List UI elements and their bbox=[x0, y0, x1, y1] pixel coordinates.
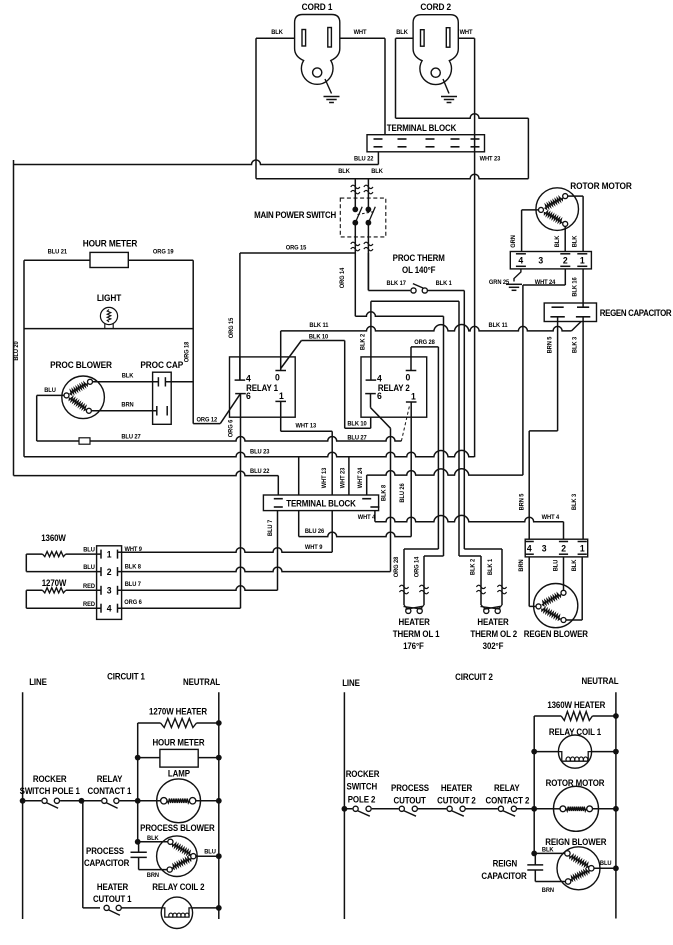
relay 1 pin 1 bbox=[275, 391, 286, 402]
proc therm overload switch PROC THERM OL 140F bbox=[368, 253, 464, 293]
svg-text:REIGN BLOWER: REIGN BLOWER bbox=[545, 837, 606, 848]
svg-text:ORG 28: ORG 28 bbox=[393, 556, 400, 577]
svg-text:RELAY: RELAY bbox=[494, 783, 520, 794]
svg-text:ORG 19: ORG 19 bbox=[153, 248, 174, 255]
svg-text:WHT 13: WHT 13 bbox=[296, 422, 317, 429]
svg-text:LIGHT: LIGHT bbox=[97, 293, 122, 304]
power cord plug CORD 1 bbox=[295, 15, 340, 94]
wire BLU 23 drop into terminal block bbox=[298, 457, 300, 495]
wire BLU 22 lower to terminal block bbox=[14, 471, 279, 495]
svg-text:RELAY COIL 2: RELAY COIL 2 bbox=[152, 882, 205, 893]
relay 1 pin 4 bbox=[235, 357, 252, 384]
svg-text:CONTACT 2: CONTACT 2 bbox=[486, 795, 530, 806]
wire GRN rotor to connector pin 4 bbox=[522, 210, 539, 252]
wire BLU 27 dashed link to relay 2 pin 1 bbox=[401, 405, 409, 442]
svg-text:CAPACITOR: CAPACITOR bbox=[481, 871, 526, 882]
wire BLU 26 from terminal block to relay 2 pin 1 bbox=[299, 511, 412, 537]
rotor motor connector block pins 4 3 2 1 bbox=[510, 252, 591, 269]
svg-text:1360W: 1360W bbox=[41, 533, 66, 544]
svg-text:4: 4 bbox=[527, 543, 533, 554]
svg-text:ORG 14: ORG 14 bbox=[413, 556, 420, 577]
hour meter bbox=[24, 252, 193, 267]
label ROCKER SWITCH POLE 1 bbox=[20, 774, 81, 797]
svg-text:BLK 2: BLK 2 bbox=[469, 558, 476, 575]
svg-text:LAMP: LAMP bbox=[168, 768, 190, 779]
svg-text:BLK: BLK bbox=[396, 29, 408, 36]
svg-text:BLK 11: BLK 11 bbox=[309, 322, 329, 329]
svg-text:WHT 23: WHT 23 bbox=[339, 467, 346, 488]
wire WHT 23 drop into terminal block bbox=[348, 457, 350, 495]
relay contact 2 switch bbox=[498, 806, 554, 816]
svg-text:BLK: BLK bbox=[147, 835, 159, 842]
wire BLK regen connector pin 1 to blower bbox=[566, 557, 582, 620]
neutral rail circuit 1 bbox=[218, 692, 220, 919]
svg-text:4: 4 bbox=[518, 255, 524, 266]
rocker switch pole 1 bbox=[20, 798, 85, 808]
svg-text:2: 2 bbox=[561, 543, 566, 554]
svg-text:4: 4 bbox=[246, 373, 252, 384]
svg-text:1360W HEATER: 1360W HEATER bbox=[547, 700, 605, 711]
heater 1360W bbox=[26, 533, 101, 572]
svg-text:SWITCH: SWITCH bbox=[347, 781, 378, 792]
svg-text:HOUR METER: HOUR METER bbox=[152, 737, 204, 748]
wire BRN 5 from regen capacitor to regen connector pin 4 bbox=[529, 322, 557, 540]
svg-text:BLK 11: BLK 11 bbox=[489, 322, 509, 329]
svg-text:BLU: BLU bbox=[204, 848, 216, 855]
relay coil 2 bbox=[161, 897, 222, 928]
regen capacitor bbox=[544, 303, 596, 322]
svg-text:BLK 3: BLK 3 bbox=[571, 493, 578, 510]
svg-text:BRN 5: BRN 5 bbox=[518, 493, 525, 510]
svg-text:PROCESS: PROCESS bbox=[391, 783, 429, 794]
svg-text:3: 3 bbox=[107, 585, 112, 596]
svg-text:WHT 4: WHT 4 bbox=[542, 514, 560, 521]
wire BLU 7 from terminal block to heater connector pin 3 bbox=[277, 511, 279, 591]
svg-text:BLK 8: BLK 8 bbox=[125, 563, 142, 570]
svg-text:BLU 21: BLU 21 bbox=[48, 248, 68, 255]
svg-text:BLK: BLK bbox=[271, 29, 283, 36]
svg-text:BLK 1: BLK 1 bbox=[436, 280, 453, 287]
svg-text:1: 1 bbox=[580, 255, 585, 266]
svg-text:BLK: BLK bbox=[371, 168, 383, 175]
wire BLU regen connector pin 2 to blower bbox=[563, 557, 565, 590]
regen blower connector block pins 4 3 2 1 bbox=[525, 539, 588, 557]
relay 2 pin 0 and wire ORG 28 bbox=[406, 347, 439, 383]
svg-text:6: 6 bbox=[377, 390, 382, 401]
svg-text:6: 6 bbox=[246, 390, 251, 401]
wire ORG 18 / ORG 19 vertical bbox=[193, 260, 220, 423]
svg-text:WHT 13: WHT 13 bbox=[321, 467, 328, 488]
wire ORG 6 relay 1 pin 6 down to heater connector pin 4 bbox=[118, 394, 241, 609]
wire ORG 28 to heater therm 1 bbox=[404, 347, 438, 605]
svg-text:BLK: BLK bbox=[554, 235, 561, 247]
svg-text:NEUTRAL: NEUTRAL bbox=[183, 677, 220, 688]
svg-text:BLK 10: BLK 10 bbox=[309, 333, 329, 340]
svg-text:BLK: BLK bbox=[338, 168, 350, 175]
svg-text:2: 2 bbox=[107, 567, 112, 578]
proc capacitor PROC CAP bbox=[153, 372, 194, 424]
svg-text:CUTOUT 1: CUTOUT 1 bbox=[93, 894, 132, 905]
heater 1270W bbox=[26, 578, 101, 609]
svg-text:ROCKER: ROCKER bbox=[346, 769, 380, 780]
svg-text:ORG 15: ORG 15 bbox=[228, 317, 235, 338]
svg-text:TERMINAL BLOCK: TERMINAL BLOCK bbox=[387, 123, 457, 134]
wire WHT 9 from terminal block to heater connector pin 1 bbox=[122, 511, 333, 553]
svg-text:WHT 24: WHT 24 bbox=[535, 279, 556, 286]
svg-text:BRN: BRN bbox=[147, 872, 159, 879]
svg-text:BLU 7: BLU 7 bbox=[267, 519, 274, 536]
svg-text:RELAY COIL 1: RELAY COIL 1 bbox=[549, 727, 602, 738]
wire BLK 16 connector pin 1 to regen capacitor bbox=[582, 269, 584, 303]
svg-text:CAPACITOR: CAPACITOR bbox=[84, 858, 129, 869]
label PROCESS CAPACITOR bbox=[84, 846, 129, 869]
reign capacitor bbox=[527, 853, 565, 881]
heater therm switch HEATER THERM OL 1 176F bbox=[399, 585, 428, 613]
svg-text:WHT: WHT bbox=[460, 29, 473, 36]
relay coil 1 bbox=[531, 735, 619, 768]
svg-text:BLU: BLU bbox=[600, 860, 612, 867]
svg-text:GRN: GRN bbox=[510, 235, 517, 248]
svg-text:2: 2 bbox=[563, 255, 568, 266]
svg-text:BLU 27: BLU 27 bbox=[121, 433, 141, 440]
svg-text:CIRCUIT 1: CIRCUIT 1 bbox=[107, 671, 145, 682]
svg-text:PROC CAP: PROC CAP bbox=[140, 360, 183, 371]
svg-text:RED: RED bbox=[83, 583, 96, 590]
svg-text:ORG 14: ORG 14 bbox=[339, 267, 346, 288]
svg-text:BLK: BLK bbox=[571, 559, 578, 571]
label RELAY CONTACT 2 bbox=[486, 783, 530, 806]
reign blower (ladder) bbox=[531, 809, 619, 890]
terminal block 2 bbox=[263, 495, 379, 511]
svg-text:ORG 15: ORG 15 bbox=[286, 244, 307, 251]
svg-text:PROCESS: PROCESS bbox=[86, 846, 124, 857]
relay 1 pin 0 bbox=[275, 357, 286, 383]
svg-text:PROC BLOWER: PROC BLOWER bbox=[50, 360, 113, 371]
wire BLU 7 from connector pin 3 bbox=[118, 586, 278, 591]
svg-text:BLK: BLK bbox=[122, 372, 134, 379]
label REIGN CAPACITOR bbox=[481, 858, 526, 881]
svg-text:REIGN: REIGN bbox=[493, 858, 518, 869]
svg-text:REGEN BLOWER: REGEN BLOWER bbox=[524, 629, 588, 640]
svg-text:RELAY: RELAY bbox=[97, 774, 123, 785]
wire ORG 14 from main switch to heater therm 1 bbox=[355, 253, 443, 605]
wire WHT 4 from terminal block to regen connector pin 2 bbox=[375, 511, 564, 540]
svg-text:CONTACT 1: CONTACT 1 bbox=[88, 786, 132, 797]
svg-text:176°F: 176°F bbox=[403, 641, 424, 652]
svg-text:BRN: BRN bbox=[518, 559, 525, 571]
svg-text:BLK 1: BLK 1 bbox=[487, 558, 494, 575]
svg-text:TERMINAL BLOCK: TERMINAL BLOCK bbox=[286, 498, 356, 509]
svg-text:ROTOR MOTOR: ROTOR MOTOR bbox=[546, 778, 605, 789]
ground symbol of CORD 2 bbox=[441, 97, 457, 103]
svg-text:REGEN CAPACITOR: REGEN CAPACITOR bbox=[600, 307, 672, 318]
proc blower motor bbox=[62, 376, 105, 419]
process capacitor (ladder) bbox=[131, 842, 168, 870]
wire BLK proc blower to proc cap bbox=[93, 381, 159, 383]
wire BLK rotor top to connector pin 1 bbox=[568, 196, 583, 251]
heater 1360W (ladder) bbox=[534, 712, 619, 809]
relay 2 pin 1 and wire BLU 26 vertical bbox=[406, 391, 417, 537]
light bulb LIGHT bbox=[24, 307, 193, 328]
rotor motor (ladder) bbox=[554, 786, 619, 831]
wire BLU 20 left rail bbox=[13, 160, 15, 476]
svg-text:BLU 27: BLU 27 bbox=[347, 434, 367, 441]
process blower (ladder) bbox=[135, 801, 222, 877]
svg-text:BLK 16: BLK 16 bbox=[571, 277, 578, 297]
wire WHT 9 left segment from connector pin1 bbox=[118, 551, 122, 553]
svg-text:HEATER: HEATER bbox=[97, 882, 128, 893]
svg-text:ORG 18: ORG 18 bbox=[183, 341, 190, 362]
svg-text:1: 1 bbox=[107, 549, 112, 560]
svg-text:1: 1 bbox=[279, 391, 284, 402]
svg-text:PROCESS BLOWER: PROCESS BLOWER bbox=[140, 823, 215, 834]
rotor motor bbox=[536, 188, 579, 231]
svg-text:CIRCUIT 2: CIRCUIT 2 bbox=[455, 672, 493, 683]
label HEATER CUTOUT 1 bbox=[93, 882, 132, 905]
svg-text:BLK: BLK bbox=[542, 846, 554, 853]
svg-text:OL 140°F: OL 140°F bbox=[402, 265, 435, 276]
svg-text:MAIN POWER SWITCH: MAIN POWER SWITCH bbox=[254, 210, 336, 221]
svg-text:BLU 7: BLU 7 bbox=[125, 581, 142, 588]
relay 2 pin 6 and wire BLK 8 diagonal bbox=[365, 390, 390, 571]
svg-text:0: 0 bbox=[275, 372, 280, 383]
power cord plug CORD 2 bbox=[413, 15, 458, 94]
svg-text:WHT 24: WHT 24 bbox=[357, 467, 364, 488]
svg-text:WHT 23: WHT 23 bbox=[480, 155, 501, 162]
svg-text:1: 1 bbox=[580, 543, 585, 554]
svg-text:RED: RED bbox=[83, 601, 96, 608]
wire BLK 2 branch to heater therm 2 bbox=[459, 301, 481, 605]
wire WHT 24 bus to terminal block bbox=[367, 469, 523, 495]
svg-text:BRN 5: BRN 5 bbox=[546, 336, 553, 353]
heater connector block pins 1 2 3 4 bbox=[97, 546, 122, 620]
svg-text:BLK 3: BLK 3 bbox=[571, 336, 578, 353]
heater 1270W (ladder) bbox=[138, 719, 222, 801]
svg-text:BLK 8: BLK 8 bbox=[380, 484, 387, 501]
svg-text:HEATER: HEATER bbox=[398, 617, 429, 628]
wire WHT 23 from CORD 2 down through terminal block bbox=[459, 38, 475, 457]
svg-text:WHT 4: WHT 4 bbox=[358, 514, 376, 521]
svg-text:BLU 22: BLU 22 bbox=[354, 155, 374, 162]
svg-text:BLK 10: BLK 10 bbox=[347, 420, 367, 427]
neutral rail circuit 2 bbox=[615, 692, 617, 918]
line rail circuit 2 bbox=[343, 692, 345, 919]
terminal block 1 bbox=[367, 135, 485, 152]
line rail circuit 1 bbox=[22, 692, 24, 919]
svg-text:SWITCH POLE 1: SWITCH POLE 1 bbox=[20, 786, 81, 797]
svg-text:ORG 6: ORG 6 bbox=[227, 419, 234, 437]
wire BLK 1 from proc therm to heater therm 2 bbox=[464, 291, 502, 606]
wire WHT 24 from connector pin 2 down-left bbox=[523, 269, 565, 475]
label ROCKER SWITCH POLE 2 bbox=[346, 769, 380, 805]
svg-text:4: 4 bbox=[107, 603, 113, 614]
svg-text:BLU: BLU bbox=[83, 564, 95, 571]
svg-text:4: 4 bbox=[377, 373, 383, 384]
wire GRN 25 to ground bbox=[514, 269, 521, 282]
wire BRN proc blower to proc cap bbox=[91, 410, 156, 412]
ground symbol GRN 25 bbox=[506, 284, 522, 290]
svg-text:HOUR METER: HOUR METER bbox=[83, 238, 138, 249]
svg-text:LINE: LINE bbox=[29, 677, 47, 688]
wire BRN regen connector pin 4 to blower hub bbox=[529, 557, 536, 607]
svg-text:HEATER: HEATER bbox=[441, 783, 472, 794]
svg-text:BLU 20: BLU 20 bbox=[13, 341, 20, 361]
relay 2 pin 4 and wire BLK 2 bbox=[366, 301, 459, 383]
svg-text:GRN 25: GRN 25 bbox=[489, 279, 510, 286]
svg-text:ORG 12: ORG 12 bbox=[197, 416, 218, 423]
label PROCESS CUTOUT bbox=[391, 783, 429, 806]
wire ORG 15 from switch to relay 1 pin 4 bbox=[240, 253, 355, 380]
svg-text:PROC THERM: PROC THERM bbox=[393, 253, 445, 264]
svg-text:BLU 26: BLU 26 bbox=[305, 528, 325, 535]
wire BLU 23 bus bbox=[24, 260, 474, 457]
svg-text:LINE: LINE bbox=[342, 678, 360, 689]
svg-text:1270W: 1270W bbox=[42, 578, 67, 589]
svg-text:BLU: BLU bbox=[83, 546, 95, 553]
wire ORG 12 diagonal from proc cap to relay 1 pin 6 bbox=[220, 394, 240, 423]
svg-text:BLK 2: BLK 2 bbox=[359, 333, 366, 350]
svg-text:ORG 28: ORG 28 bbox=[414, 339, 435, 346]
wire BLK from CORD 2 to right rail bbox=[396, 38, 529, 178]
wire BLK 11 bus from relay 1 pin 0 to regen capacitor bbox=[281, 322, 581, 357]
wire WHT from CORD 1 bbox=[340, 38, 385, 134]
svg-text:BLU 23: BLU 23 bbox=[250, 448, 270, 455]
svg-text:CUTOUT 2: CUTOUT 2 bbox=[437, 795, 476, 806]
svg-text:BLU 22: BLU 22 bbox=[250, 468, 270, 475]
svg-text:3: 3 bbox=[542, 543, 547, 554]
svg-text:BRN: BRN bbox=[121, 401, 133, 408]
svg-text:302°F: 302°F bbox=[483, 641, 504, 652]
ground symbol of CORD 1 bbox=[324, 97, 340, 103]
svg-text:WHT 9: WHT 9 bbox=[305, 544, 323, 551]
heater therm switch HEATER THERM OL 2 302F bbox=[476, 585, 506, 613]
lamp (ladder) bbox=[138, 779, 222, 823]
wire BLU 27 bus bbox=[37, 395, 402, 444]
label RELAY CONTACT 1 bbox=[88, 774, 132, 797]
svg-text:1270W HEATER: 1270W HEATER bbox=[149, 706, 207, 717]
regen blower motor bbox=[534, 584, 578, 628]
svg-text:CUTOUT: CUTOUT bbox=[394, 795, 427, 806]
relay contact 1 bbox=[82, 798, 141, 808]
wire BLK bus to main power switch bbox=[256, 174, 528, 179]
rocker switch pole 2 bbox=[342, 806, 402, 816]
heater cutout 2 switch bbox=[446, 806, 501, 816]
svg-text:0: 0 bbox=[406, 372, 411, 383]
hour meter (ladder) bbox=[135, 749, 222, 767]
svg-text:BLK: BLK bbox=[571, 235, 578, 247]
wire BLU 22 upper: left rail to terminal block bbox=[14, 152, 379, 165]
svg-text:RELAY 2: RELAY 2 bbox=[378, 383, 410, 394]
svg-text:ROCKER: ROCKER bbox=[33, 774, 67, 785]
svg-text:BRN: BRN bbox=[542, 887, 554, 894]
wire WHT 13 relay 1 pin 1 to terminal block bbox=[281, 401, 333, 495]
svg-text:BLU: BLU bbox=[44, 387, 56, 394]
svg-text:WHT: WHT bbox=[354, 29, 367, 36]
svg-text:THERM OL 1: THERM OL 1 bbox=[393, 629, 440, 640]
svg-text:CORD 2: CORD 2 bbox=[420, 2, 451, 13]
relay 1 pin 6 bbox=[235, 390, 251, 401]
svg-text:ORG 6: ORG 6 bbox=[124, 599, 142, 606]
svg-text:3: 3 bbox=[538, 255, 543, 266]
wire BLK 10 relay 1 pin 0 to relay 2 pin 6 bbox=[281, 341, 371, 429]
svg-text:1: 1 bbox=[411, 391, 416, 402]
svg-text:WHT 9: WHT 9 bbox=[124, 546, 142, 553]
wire BLK from CORD 1 bbox=[256, 38, 295, 178]
svg-text:POLE 2: POLE 2 bbox=[348, 794, 376, 805]
svg-text:BLU 26: BLU 26 bbox=[399, 483, 406, 503]
svg-text:BLK 17: BLK 17 bbox=[387, 280, 407, 287]
svg-text:ROTOR MOTOR: ROTOR MOTOR bbox=[570, 181, 632, 192]
main power switch bbox=[340, 179, 386, 290]
svg-text:HEATER: HEATER bbox=[477, 617, 508, 628]
relay 2 bbox=[361, 357, 427, 417]
svg-text:BLU: BLU bbox=[552, 559, 559, 571]
svg-text:THERM OL 2: THERM OL 2 bbox=[470, 629, 517, 640]
wire BLK rotor bottom to connector pin 2 bbox=[564, 226, 566, 251]
svg-text:NEUTRAL: NEUTRAL bbox=[581, 676, 618, 687]
wire BLK 8 from connector pin 2 to relay 2 pin 6 bbox=[118, 567, 391, 572]
wire BLK 3 from regen capacitor to regen connector pin 1 bbox=[582, 322, 584, 540]
svg-text:CORD 1: CORD 1 bbox=[302, 2, 333, 13]
relay 1 bbox=[230, 357, 296, 417]
process cutout switch bbox=[399, 806, 450, 816]
label HEATER CUTOUT 2 bbox=[437, 783, 476, 806]
heater cutout 1 bbox=[83, 801, 162, 916]
